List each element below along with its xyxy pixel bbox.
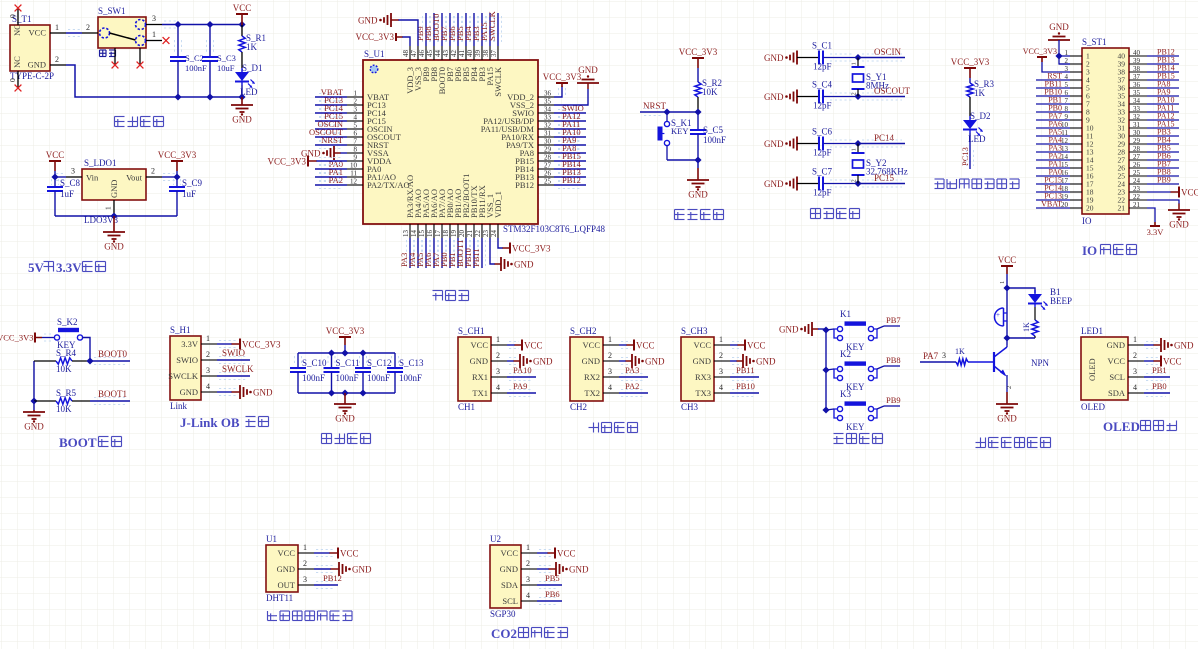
svg-text:100nF: 100nF bbox=[302, 373, 325, 383]
junction filter bottom GND bbox=[341, 389, 348, 396]
U1 pin 16 (PA6/AO) bbox=[423, 189, 439, 268]
svg-text:23: 23 bbox=[482, 230, 490, 238]
svg-text:1: 1 bbox=[303, 543, 307, 552]
power VCC_3V3 filter bbox=[326, 326, 365, 345]
key K3 KEY bbox=[826, 389, 884, 432]
svg-text:S_C7: S_C7 bbox=[812, 167, 833, 177]
svg-text:GND: GND bbox=[1049, 22, 1069, 32]
ST1 pin 23 bbox=[1118, 185, 1148, 197]
ST1 pin 30 (PB3) bbox=[1118, 128, 1180, 141]
svg-text:3: 3 bbox=[206, 366, 210, 375]
svg-text:NRST: NRST bbox=[321, 135, 344, 145]
svg-text:GND: GND bbox=[533, 357, 553, 367]
svg-text:K3: K3 bbox=[840, 389, 851, 399]
power VCC_3V3 at H1 pin1 bbox=[217, 339, 281, 350]
U1 DHT11 pin 3 (OUT) bbox=[278, 575, 314, 590]
svg-text:12: 12 bbox=[350, 178, 358, 186]
transistor Q1 NPN bbox=[994, 345, 1050, 392]
caption 5V转3.3V电路 bbox=[28, 260, 106, 275]
net wire PC13 bbox=[960, 133, 974, 169]
svg-text:VBAT: VBAT bbox=[1041, 200, 1062, 209]
svg-text:GND: GND bbox=[352, 565, 372, 575]
wire key to BOOT0 node bbox=[83, 338, 90, 362]
header S_ST1 IO bbox=[1082, 37, 1129, 226]
svg-text:2: 2 bbox=[1133, 351, 1137, 360]
svg-text:S_R5: S_R5 bbox=[56, 388, 77, 398]
net wire PB0 bbox=[1144, 381, 1170, 397]
svg-text:PB5: PB5 bbox=[545, 573, 560, 583]
ST1 pin 14 (PA2) bbox=[1036, 152, 1094, 165]
ST1 pin 12 (PA4) bbox=[1036, 136, 1094, 149]
svg-text:22: 22 bbox=[474, 230, 482, 238]
svg-text:26: 26 bbox=[1133, 161, 1141, 169]
junction C5 bottom bbox=[694, 156, 701, 163]
svg-text:OUT: OUT bbox=[278, 580, 296, 590]
svg-text:GND: GND bbox=[470, 356, 488, 366]
ST1 pin 1 bbox=[1065, 49, 1091, 61]
net wire PB10 bbox=[730, 381, 759, 397]
ST1 pin 8 (PB0) bbox=[1036, 104, 1090, 117]
svg-text:VCC_3V3: VCC_3V3 bbox=[679, 47, 718, 57]
svg-text:5V: 5V bbox=[28, 260, 45, 275]
svg-text:PB0: PB0 bbox=[1152, 381, 1167, 391]
svg-text:32: 32 bbox=[1133, 113, 1141, 121]
net wire PB9 bbox=[884, 395, 901, 406]
svg-text:VDD_1: VDD_1 bbox=[493, 191, 503, 218]
svg-text:DHT11: DHT11 bbox=[266, 593, 293, 603]
ground GND at S_CH3 bbox=[730, 354, 776, 368]
ST1 pin 24 (PB9) bbox=[1118, 176, 1180, 189]
svg-text:1K: 1K bbox=[955, 347, 965, 356]
svg-text:3: 3 bbox=[71, 167, 75, 176]
wire filter bottom rail bbox=[298, 392, 395, 394]
svg-text:PC13: PC13 bbox=[960, 147, 970, 166]
svg-text:PA7: PA7 bbox=[923, 351, 939, 361]
svg-text:S_C1: S_C1 bbox=[812, 41, 832, 51]
wire filter top rail bbox=[298, 345, 395, 353]
svg-text:LED1: LED1 bbox=[1081, 326, 1103, 336]
svg-text:48: 48 bbox=[402, 50, 410, 58]
svg-text:1: 1 bbox=[851, 148, 858, 151]
svg-text:1: 1 bbox=[851, 62, 858, 65]
LED S_D1 bbox=[235, 63, 263, 97]
svg-text:VCC_3V3: VCC_3V3 bbox=[1023, 47, 1057, 56]
U1 pin 30 (PA9/TX) bbox=[506, 135, 586, 150]
svg-text:33: 33 bbox=[1133, 105, 1141, 113]
ST1 pin 6 (PB10) bbox=[1036, 88, 1090, 101]
svg-text:3: 3 bbox=[354, 106, 358, 114]
svg-text:1: 1 bbox=[526, 543, 530, 552]
svg-text:1: 1 bbox=[152, 30, 156, 39]
svg-text:100nF: 100nF bbox=[399, 373, 422, 383]
ST1 pin 40 (PB12) bbox=[1118, 48, 1180, 61]
svg-text:23: 23 bbox=[1133, 185, 1141, 193]
ST1 pin 29 (PB4) bbox=[1118, 136, 1180, 149]
svg-text:1: 1 bbox=[608, 335, 612, 344]
svg-text:12pF: 12pF bbox=[813, 148, 832, 158]
junction bus K1 bbox=[822, 326, 829, 333]
svg-text:PB12: PB12 bbox=[515, 180, 534, 190]
svg-text:GND: GND bbox=[1174, 341, 1194, 351]
svg-text:12pF: 12pF bbox=[813, 188, 832, 198]
svg-text:S_C3: S_C3 bbox=[217, 53, 236, 63]
svg-text:KEY: KEY bbox=[846, 422, 865, 432]
svg-text:47: 47 bbox=[410, 50, 418, 58]
svg-text:VCC_3V3: VCC_3V3 bbox=[951, 57, 990, 67]
svg-text:TX1: TX1 bbox=[472, 388, 488, 398]
U1 pin 6 (OSCOUT) bbox=[309, 127, 402, 142]
U1 pin 24 (VDD_1) bbox=[490, 191, 503, 238]
U1 pin 4 (PC15) bbox=[315, 111, 386, 126]
ST1 pin 13 (PA3) bbox=[1036, 144, 1094, 157]
ST1 pin 25 (PB8) bbox=[1118, 168, 1180, 181]
svg-text:SWCLK: SWCLK bbox=[222, 364, 254, 374]
svg-text:38: 38 bbox=[482, 50, 490, 58]
svg-text:15: 15 bbox=[418, 230, 426, 238]
svg-text:OSCIN: OSCIN bbox=[874, 47, 902, 57]
svg-text:STM32F103C8T6_LQFP48: STM32F103C8T6_LQFP48 bbox=[503, 224, 606, 234]
U1 pin 42 (PB6) bbox=[447, 13, 463, 82]
svg-text:VCC: VCC bbox=[1181, 188, 1198, 198]
junction bottom rail at C3 bbox=[206, 93, 213, 100]
svg-text:4: 4 bbox=[608, 383, 612, 392]
svg-text:K1: K1 bbox=[840, 309, 851, 319]
caption 按键电路 bbox=[834, 434, 883, 444]
svg-text:1: 1 bbox=[104, 206, 113, 210]
ST1 pin 4 (RST) bbox=[1036, 72, 1090, 85]
junction ST1 pin1 GND bbox=[1055, 52, 1062, 59]
S_CH1 pin 3 (RX1) bbox=[472, 367, 507, 382]
H1 pin 3 (SWCLK) bbox=[168, 366, 217, 381]
svg-text:6: 6 bbox=[354, 130, 358, 138]
svg-text:S_ST1: S_ST1 bbox=[1082, 37, 1107, 47]
svg-text:GND: GND bbox=[693, 356, 711, 366]
caption 温湿度检测模块 bbox=[268, 611, 353, 621]
svg-text:11: 11 bbox=[350, 170, 357, 178]
ST1 pin 18 (PC14) bbox=[1036, 184, 1094, 197]
ground GND buttons bbox=[779, 322, 826, 336]
wire SW1 pin3 to VCC rail bbox=[162, 21, 242, 28]
ground GND at S_CH2 bbox=[619, 354, 665, 368]
svg-text:S_K2: S_K2 bbox=[57, 317, 78, 327]
svg-text:GND: GND bbox=[645, 357, 665, 367]
caption BOOT电路 bbox=[59, 435, 122, 450]
U1 pin 18 (PB0/AO) bbox=[439, 189, 455, 268]
wire left rail R4-R5-GND bbox=[33, 361, 35, 401]
svg-text:S_D2: S_D2 bbox=[970, 111, 991, 121]
U1 pin 12 (PA2/TX/AO) bbox=[315, 175, 410, 190]
svg-text:39: 39 bbox=[1133, 57, 1141, 65]
svg-text:+: + bbox=[996, 311, 1000, 319]
svg-text:25: 25 bbox=[1133, 169, 1141, 177]
caption OLED显示屏 bbox=[1103, 419, 1177, 434]
ground GND at ST1 pins1-2 bbox=[1048, 22, 1070, 64]
svg-text:34: 34 bbox=[544, 106, 552, 114]
svg-text:VCC: VCC bbox=[747, 341, 766, 351]
U1 pin 28 (PB15) bbox=[515, 151, 586, 166]
U1 pin 19 (PB1/AO) bbox=[447, 189, 463, 268]
svg-text:GND: GND bbox=[569, 565, 589, 575]
svg-text:VCC_3V3: VCC_3V3 bbox=[355, 32, 394, 42]
ground GND at DHT11 bbox=[314, 562, 372, 576]
U1 pin 25 (PB12) bbox=[515, 175, 586, 190]
ST1 pin 27 (PB6) bbox=[1118, 152, 1180, 165]
svg-text:S_CH1: S_CH1 bbox=[458, 326, 485, 336]
svg-text:30: 30 bbox=[544, 138, 552, 146]
ST1 pin 5 (PB11) bbox=[1036, 80, 1090, 93]
junction alarm bottom bbox=[1003, 334, 1010, 341]
svg-text:CH3: CH3 bbox=[681, 402, 699, 412]
power flag VCC_3V3 at LDO output bbox=[158, 150, 197, 171]
svg-text:TX3: TX3 bbox=[695, 388, 711, 398]
U1 pin 13 (PA3/RX/AO) bbox=[399, 175, 415, 268]
svg-text:1K: 1K bbox=[246, 42, 258, 52]
svg-text:SWCLK: SWCLK bbox=[493, 66, 503, 97]
svg-text:U1: U1 bbox=[266, 534, 277, 544]
svg-text:GND: GND bbox=[277, 564, 295, 574]
svg-text:CO2: CO2 bbox=[491, 626, 517, 641]
power VCC_3V3 at VDDA pin9 bbox=[267, 156, 347, 167]
ground GND at S_C4 bbox=[764, 90, 819, 104]
svg-text:5: 5 bbox=[354, 122, 358, 130]
svg-text:12pF: 12pF bbox=[813, 62, 832, 72]
svg-text:33: 33 bbox=[544, 114, 552, 122]
U1 pin 14 (PA4/AO) bbox=[407, 189, 423, 268]
svg-text:100nF: 100nF bbox=[703, 135, 726, 145]
svg-text:GND: GND bbox=[578, 65, 598, 75]
ST1 pin 9 (PA7) bbox=[1036, 112, 1090, 125]
junction bottom rail at LED bbox=[238, 93, 245, 100]
U1 pin 43 (PB7) bbox=[439, 13, 455, 82]
S_CH1 pin 4 (TX1) bbox=[472, 383, 507, 398]
svg-text:IO: IO bbox=[1082, 216, 1092, 226]
svg-text:12pF: 12pF bbox=[813, 101, 832, 111]
svg-text:VCC_3V3: VCC_3V3 bbox=[512, 244, 551, 254]
svg-text:GND: GND bbox=[764, 53, 784, 63]
svg-text:GND: GND bbox=[756, 357, 776, 367]
ST1 pin 10 (PA6) bbox=[1036, 120, 1094, 133]
svg-text:SGP30: SGP30 bbox=[490, 609, 516, 619]
switch S_SW1 bbox=[82, 6, 162, 64]
U1 pin 2 (PC13) bbox=[315, 95, 386, 110]
svg-text:26: 26 bbox=[544, 170, 552, 178]
svg-text:2: 2 bbox=[55, 55, 59, 64]
junction OSCOUT/crystal bbox=[854, 93, 861, 100]
connector S_CH1 CH1 bbox=[458, 326, 491, 412]
connector S_CH3 CH3 bbox=[681, 326, 714, 412]
ST1 pin 35 (PA9) bbox=[1118, 88, 1180, 101]
LED1 pin 3 (SCL) bbox=[1109, 367, 1144, 382]
ST1 pin 16 (PA0) bbox=[1036, 168, 1094, 181]
U1 pin 27 (PB14) bbox=[515, 159, 586, 174]
resistor 1K alarm bbox=[1007, 307, 1038, 338]
display LED1 OLED bbox=[1081, 326, 1128, 412]
wire VCC to Vin bbox=[55, 171, 66, 181]
resistor S_R5 10K bbox=[34, 388, 90, 414]
svg-text:S_CH2: S_CH2 bbox=[570, 326, 597, 336]
ST1 pin 2 bbox=[1065, 57, 1091, 69]
svg-text:CH2: CH2 bbox=[570, 402, 587, 412]
svg-text:27: 27 bbox=[1133, 153, 1141, 161]
svg-text:OLED: OLED bbox=[1087, 358, 1097, 381]
U1 pin 29 (PA8) bbox=[520, 143, 586, 158]
power VCC at ST1 pin23 bbox=[1147, 187, 1198, 198]
svg-text:VCC_3V3: VCC_3V3 bbox=[242, 340, 281, 350]
svg-text:3: 3 bbox=[942, 351, 946, 360]
svg-text:19: 19 bbox=[450, 230, 458, 238]
svg-text:24: 24 bbox=[1133, 177, 1141, 185]
ST1 pin 22 bbox=[1118, 193, 1148, 205]
power flag VCC_3V3 reset bbox=[679, 47, 718, 68]
net wire PC14 bbox=[858, 133, 905, 147]
ground GND reset bbox=[687, 168, 709, 200]
svg-text:1: 1 bbox=[206, 334, 210, 343]
svg-text:U2: U2 bbox=[490, 534, 501, 544]
svg-text:4: 4 bbox=[1133, 383, 1137, 392]
svg-text:GND: GND bbox=[582, 356, 600, 366]
svg-text:S_U1: S_U1 bbox=[364, 49, 385, 59]
svg-text:VCC: VCC bbox=[557, 549, 576, 559]
U1 pin 48 (VDD_3) bbox=[402, 46, 415, 94]
svg-text:27: 27 bbox=[544, 162, 552, 170]
wire T1 GND down and right to LED cathode rail bbox=[66, 65, 242, 97]
svg-text:100nF: 100nF bbox=[185, 63, 207, 73]
svg-text:29: 29 bbox=[1133, 137, 1141, 145]
U1 pin 32 (PA11/USB/DM) bbox=[481, 119, 586, 134]
svg-text:21: 21 bbox=[1133, 201, 1141, 209]
no-connect flag SW1 pin4 bbox=[112, 62, 144, 69]
net label NRST bbox=[643, 101, 667, 111]
svg-text:PB11: PB11 bbox=[471, 248, 481, 267]
junction filter top VCC bbox=[341, 349, 348, 356]
svg-text:NC: NC bbox=[12, 56, 22, 68]
capacitor S_C11 100nF bbox=[324, 353, 360, 393]
U1 pin 41 (PB5) bbox=[455, 13, 471, 82]
svg-text:NC: NC bbox=[12, 24, 22, 36]
crystal S_Y1 8MHz bbox=[851, 58, 890, 97]
ground GND at OLED pin1 bbox=[1144, 338, 1194, 352]
svg-text:GND: GND bbox=[358, 16, 378, 26]
svg-text:1K: 1K bbox=[1022, 322, 1031, 332]
ST1 pin 34 (PA10) bbox=[1118, 96, 1180, 109]
ground GND at S_C6 bbox=[764, 137, 819, 151]
net wire BOOT1 bbox=[90, 389, 130, 405]
svg-text:SCL: SCL bbox=[502, 596, 518, 606]
svg-text:S_D1: S_D1 bbox=[242, 63, 263, 73]
crystal S_Y2 32.768KHz bbox=[851, 144, 908, 184]
svg-text:21: 21 bbox=[1118, 204, 1126, 213]
svg-text:31: 31 bbox=[544, 130, 552, 138]
net wire PA10 bbox=[507, 365, 536, 381]
U1 pin 22 (PB11/RX) bbox=[471, 185, 487, 268]
svg-text:NRST: NRST bbox=[643, 101, 667, 111]
svg-text:41: 41 bbox=[458, 50, 466, 58]
caption 晶振电路 bbox=[811, 209, 860, 219]
U1 pin 10 (PA0) bbox=[315, 159, 381, 174]
svg-text:45: 45 bbox=[426, 50, 434, 58]
ST1 pin 28 (PB5) bbox=[1118, 144, 1180, 157]
svg-text:VCC_3V3: VCC_3V3 bbox=[326, 326, 365, 336]
ST1 pin 37 (PB15) bbox=[1118, 72, 1180, 85]
power VCC_3V3 at VDD_2 pin36 bbox=[543, 72, 582, 97]
ground GND BOOT bbox=[23, 401, 45, 432]
key S_K2 bbox=[54, 317, 82, 350]
power VCC_3V3 at VDD_1 pin24 bbox=[498, 238, 551, 254]
svg-text:9: 9 bbox=[354, 154, 358, 162]
svg-text:GND: GND bbox=[688, 190, 708, 200]
svg-text:Link: Link bbox=[170, 401, 187, 411]
svg-text:3.3V: 3.3V bbox=[56, 260, 82, 275]
H1 pin 2 (SWIO) bbox=[176, 350, 217, 365]
key K1 KEY bbox=[826, 309, 884, 352]
junction bus K3 bbox=[822, 406, 829, 413]
S_CH1 pin 1 (VCC) bbox=[471, 335, 507, 350]
svg-text:RX3: RX3 bbox=[695, 372, 711, 382]
mcu S_U1 STM32F103C8T6_LQFP48 bbox=[363, 49, 606, 234]
ST1 pin 26 (PB7) bbox=[1118, 160, 1180, 173]
junction top rail at C3 bbox=[206, 21, 213, 28]
svg-text:1: 1 bbox=[55, 23, 59, 32]
connector S_H1 J-Link bbox=[170, 325, 201, 411]
svg-text:37: 37 bbox=[490, 50, 498, 58]
svg-text:VCC: VCC bbox=[233, 3, 252, 13]
svg-text:35: 35 bbox=[544, 98, 552, 106]
svg-text:SWCLK: SWCLK bbox=[487, 10, 497, 41]
U1 pin 17 (PA7/AO) bbox=[431, 189, 447, 268]
svg-text:GND: GND bbox=[764, 92, 784, 102]
svg-text:S_SW1: S_SW1 bbox=[98, 6, 126, 16]
resistor S_R4 10K bbox=[34, 348, 90, 374]
power VCC at S_CH3 bbox=[730, 340, 766, 351]
svg-text:16: 16 bbox=[426, 230, 434, 238]
ground GND power circuit bbox=[231, 97, 253, 125]
net wire OSCOUT bbox=[858, 86, 911, 100]
svg-text:VCC: VCC bbox=[583, 340, 601, 350]
svg-text:VCC: VCC bbox=[1108, 356, 1126, 366]
buzzer B1 BEEP bbox=[995, 308, 1008, 326]
svg-text:1: 1 bbox=[999, 281, 1006, 284]
svg-text:21: 21 bbox=[466, 230, 474, 238]
svg-text:BOOT1: BOOT1 bbox=[98, 389, 127, 399]
net wire SWIO bbox=[217, 348, 250, 364]
S_CH3 pin 4 (TX3) bbox=[695, 383, 730, 398]
U1 pin 3 (PC14) bbox=[315, 103, 387, 118]
svg-text:20: 20 bbox=[458, 230, 466, 238]
ground GND at S_C1 bbox=[764, 51, 819, 65]
svg-text:8: 8 bbox=[354, 146, 358, 154]
svg-text:31: 31 bbox=[1133, 121, 1141, 129]
U2 SGP30 pin 1 (VCC) bbox=[501, 543, 537, 558]
svg-text:GND: GND bbox=[997, 414, 1017, 424]
svg-text:S_LDO1: S_LDO1 bbox=[84, 158, 117, 168]
svg-text:OLED: OLED bbox=[1103, 419, 1140, 434]
junction filter top C11 bbox=[328, 349, 335, 356]
svg-text:PB8: PB8 bbox=[886, 355, 901, 365]
caption 电源电路 bbox=[115, 117, 164, 127]
U2 SGP30 pin 3 (SDA) bbox=[501, 575, 537, 590]
power flag VCC_3V3 run LED bbox=[951, 57, 990, 78]
U1 pin 26 (PB13) bbox=[515, 167, 586, 182]
U1 pin 1 (VBAT) bbox=[315, 87, 390, 102]
svg-text:35: 35 bbox=[1133, 89, 1141, 97]
power VCC at SGP30 bbox=[537, 548, 576, 559]
svg-text:3: 3 bbox=[303, 575, 307, 584]
svg-text:32: 32 bbox=[544, 122, 552, 130]
power VCC at DHT11 bbox=[314, 548, 359, 559]
caption 声光报警电路 bbox=[976, 438, 1051, 448]
ST1 pin 21 bbox=[1118, 201, 1148, 213]
svg-text:OLED: OLED bbox=[1081, 402, 1105, 412]
